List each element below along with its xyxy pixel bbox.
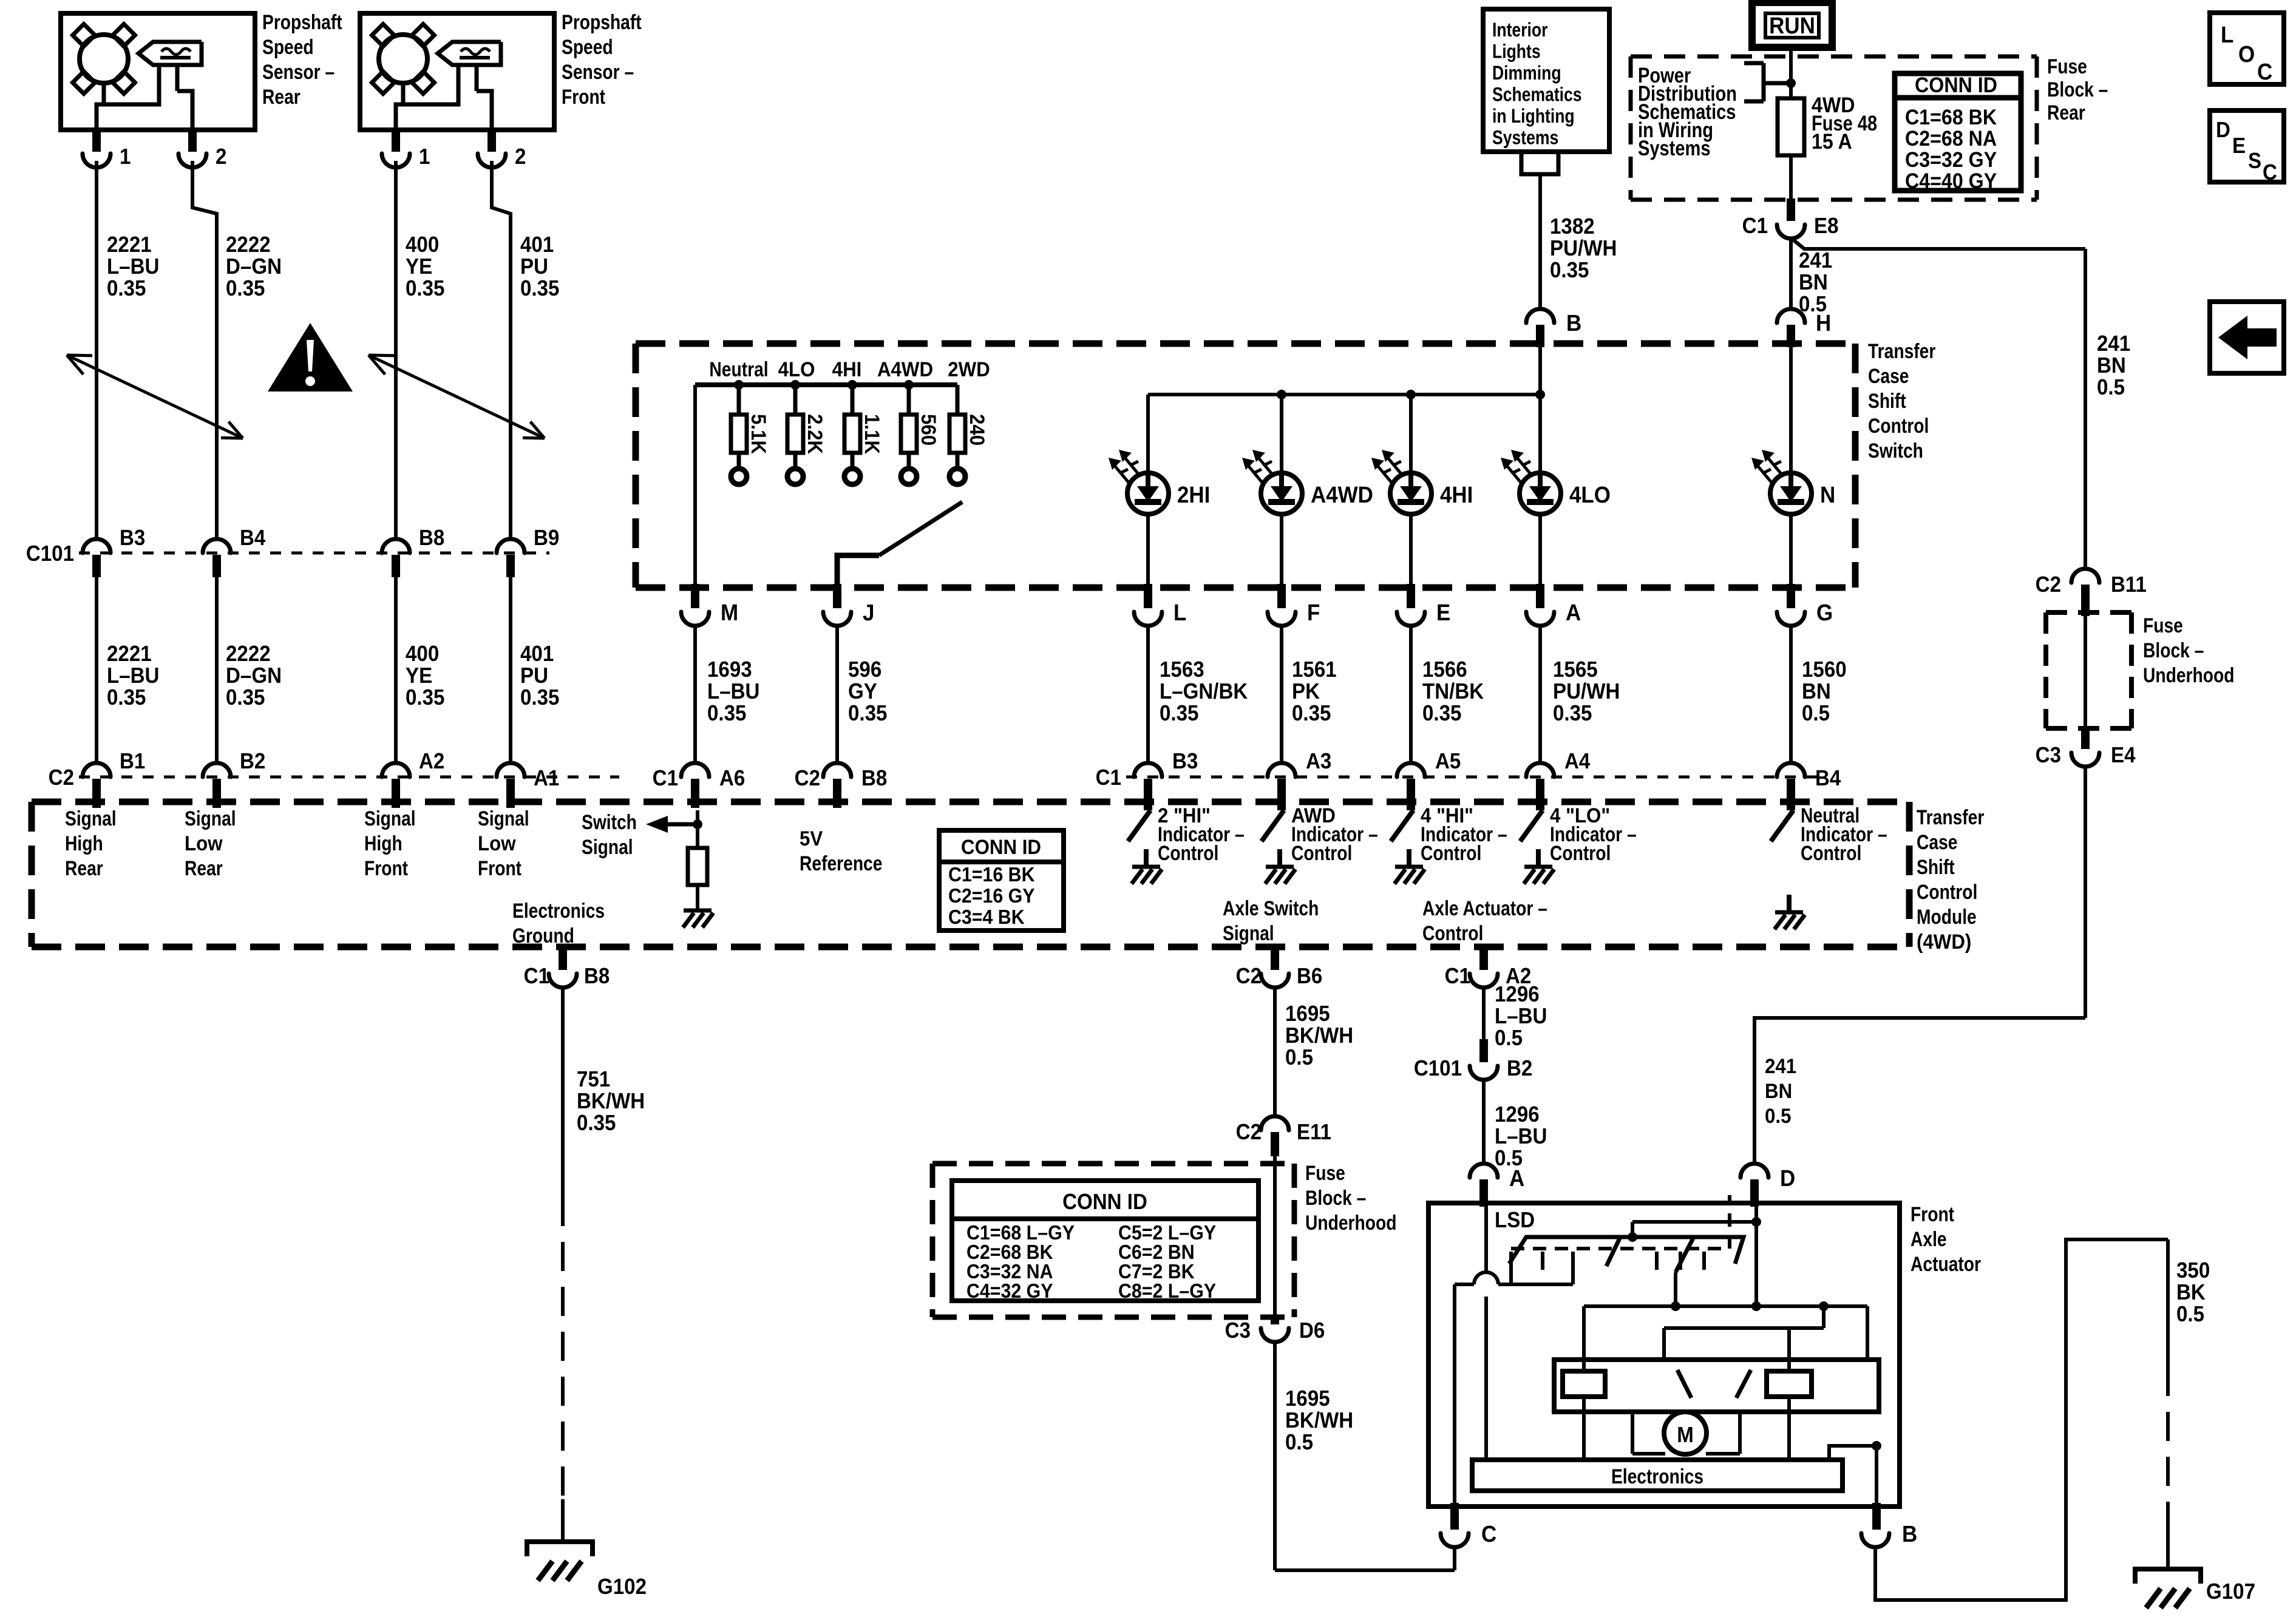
svg-text:A4: A4 [1564, 750, 1591, 774]
svg-text:751: 751 [577, 1068, 610, 1092]
svg-text:L–GN/BK: L–GN/BK [1160, 680, 1248, 704]
svg-text:1695: 1695 [1285, 1002, 1330, 1026]
svg-text:Speed: Speed [562, 36, 613, 59]
svg-text:Control: Control [1158, 842, 1218, 865]
svg-text:B4: B4 [240, 526, 266, 551]
svg-text:Sensor –: Sensor – [262, 61, 335, 84]
svg-text:Rear: Rear [2047, 101, 2085, 124]
svg-text:High: High [364, 832, 402, 855]
svg-text:BK/WH: BK/WH [1285, 1024, 1353, 1048]
svg-text:C: C [1481, 1521, 1496, 1547]
svg-text:B3: B3 [1172, 750, 1198, 774]
svg-text:Signal: Signal [185, 807, 236, 830]
svg-text:0.35: 0.35 [107, 686, 146, 710]
svg-text:Lights: Lights [1492, 41, 1541, 63]
svg-text:C2: C2 [1236, 964, 1262, 989]
svg-text:Interior: Interior [1492, 19, 1547, 41]
svg-text:Underhood: Underhood [2143, 664, 2234, 687]
svg-text:Control: Control [1550, 842, 1611, 865]
svg-text:C2: C2 [49, 766, 74, 790]
svg-text:C8=2 L–GY: C8=2 L–GY [1118, 1280, 1216, 1302]
svg-text:0.5: 0.5 [1285, 1046, 1313, 1070]
svg-text:C1: C1 [1742, 214, 1768, 239]
svg-text:Module: Module [1917, 906, 1977, 929]
svg-text:L–BU: L–BU [707, 680, 759, 704]
svg-text:Front: Front [562, 86, 606, 109]
svg-text:B1: B1 [120, 750, 145, 774]
svg-text:Shift: Shift [1917, 856, 1955, 879]
svg-text:C2: C2 [1236, 1120, 1262, 1145]
svg-text:BK/WH: BK/WH [1285, 1409, 1353, 1433]
svg-text:0.35: 0.35 [1553, 702, 1592, 726]
svg-text:Switch: Switch [1868, 439, 1923, 463]
svg-text:(4WD): (4WD) [1917, 930, 1971, 954]
svg-text:2222: 2222 [226, 642, 271, 666]
svg-text:560: 560 [917, 414, 941, 446]
svg-text:L–BU: L–BU [107, 255, 159, 279]
svg-text:B11: B11 [2111, 573, 2147, 597]
svg-text:G102: G102 [597, 1575, 647, 1599]
svg-text:E: E [2232, 134, 2246, 158]
svg-text:2: 2 [216, 145, 226, 169]
svg-text:PU/WH: PU/WH [1553, 680, 1620, 704]
svg-text:4LO: 4LO [778, 358, 815, 381]
svg-text:241: 241 [1799, 249, 1832, 273]
svg-text:L–BU: L–BU [1495, 1125, 1547, 1149]
svg-text:Schematics: Schematics [1492, 84, 1582, 106]
svg-text:Actuator: Actuator [1911, 1253, 1981, 1276]
svg-text:S: S [2248, 149, 2261, 174]
svg-text:PU: PU [520, 255, 548, 279]
svg-text:YE: YE [406, 255, 432, 279]
svg-text:2: 2 [515, 145, 526, 169]
svg-text:A4WD: A4WD [877, 358, 933, 381]
svg-text:L: L [1173, 600, 1186, 626]
svg-text:E: E [1436, 600, 1450, 626]
svg-text:Underhood: Underhood [1305, 1212, 1396, 1235]
svg-text:0.35: 0.35 [406, 277, 444, 301]
svg-text:Signal: Signal [582, 836, 633, 859]
svg-text:596: 596 [848, 658, 881, 682]
svg-text:Control: Control [1421, 842, 1481, 865]
svg-text:Control: Control [1291, 842, 1352, 865]
svg-text:CONN ID: CONN ID [1062, 1190, 1147, 1215]
svg-text:D–GN: D–GN [226, 664, 282, 688]
svg-text:C4=32 GY: C4=32 GY [966, 1280, 1053, 1302]
svg-text:0.35: 0.35 [406, 686, 444, 710]
svg-text:5V: 5V [800, 827, 823, 850]
svg-text:E4: E4 [2111, 744, 2136, 768]
svg-text:A3: A3 [1306, 750, 1331, 774]
svg-text:B: B [1566, 310, 1581, 336]
svg-text:C3: C3 [2036, 744, 2061, 768]
svg-text:Signal: Signal [1223, 922, 1274, 945]
svg-text:Transfer: Transfer [1917, 806, 1984, 829]
svg-text:Switch: Switch [582, 811, 637, 834]
svg-text:BN: BN [1799, 271, 1828, 295]
svg-text:0.35: 0.35 [848, 702, 887, 726]
svg-text:401: 401 [520, 642, 554, 666]
svg-text:0.35: 0.35 [1422, 702, 1461, 726]
svg-text:0.5: 0.5 [1765, 1104, 1791, 1128]
svg-text:M: M [1677, 1423, 1694, 1448]
svg-text:A5: A5 [1435, 750, 1461, 774]
svg-text:Propshaft: Propshaft [262, 11, 342, 34]
svg-text:Reference: Reference [800, 852, 882, 875]
svg-text:BN: BN [2097, 354, 2126, 378]
svg-text:B: B [1902, 1521, 1917, 1547]
svg-text:Sensor –: Sensor – [562, 61, 634, 84]
svg-text:5.1K: 5.1K [747, 414, 771, 454]
svg-text:350: 350 [2176, 1259, 2210, 1283]
svg-text:J: J [863, 600, 874, 626]
svg-text:Dimming: Dimming [1492, 63, 1561, 84]
svg-text:C1: C1 [1445, 964, 1470, 989]
svg-text:0.5: 0.5 [1285, 1431, 1313, 1455]
svg-text:C1: C1 [653, 767, 678, 791]
svg-text:LSD: LSD [1495, 1209, 1535, 1233]
svg-text:Rear: Rear [185, 857, 223, 880]
svg-text:1.1K: 1.1K [861, 414, 885, 454]
svg-text:Ground: Ground [512, 924, 574, 947]
svg-text:0.35: 0.35 [520, 277, 559, 301]
svg-text:2221: 2221 [107, 233, 152, 257]
svg-text:BK/WH: BK/WH [577, 1090, 645, 1114]
svg-text:Block –: Block – [2047, 78, 2108, 101]
svg-text:CONN ID: CONN ID [1915, 74, 1997, 98]
svg-text:B2: B2 [1507, 1057, 1532, 1081]
svg-text:B9: B9 [534, 526, 559, 551]
svg-text:0.5: 0.5 [1802, 702, 1830, 726]
svg-text:Fuse: Fuse [1305, 1162, 1345, 1185]
svg-text:PU: PU [520, 664, 548, 688]
svg-text:0.35: 0.35 [226, 277, 265, 301]
svg-text:Signal: Signal [65, 807, 117, 830]
svg-text:0.5: 0.5 [1495, 1026, 1523, 1051]
svg-text:O: O [2238, 41, 2255, 67]
svg-text:C2: C2 [2036, 573, 2061, 597]
svg-text:1382: 1382 [1550, 215, 1595, 239]
svg-text:240: 240 [966, 414, 990, 446]
svg-text:Signal: Signal [364, 807, 416, 830]
svg-text:0.35: 0.35 [1292, 702, 1331, 726]
svg-text:Speed: Speed [262, 36, 314, 59]
svg-text:Control: Control [1422, 922, 1483, 945]
svg-text:Front: Front [478, 857, 522, 880]
svg-text:C3=4 BK: C3=4 BK [948, 906, 1025, 928]
svg-text:Front: Front [364, 857, 409, 880]
svg-text:D: D [2216, 118, 2230, 143]
svg-text:C4=40 GY: C4=40 GY [1905, 170, 1997, 194]
svg-text:Case: Case [1917, 831, 1957, 854]
svg-text:1693: 1693 [707, 658, 752, 682]
svg-text:0.35: 0.35 [577, 1111, 616, 1136]
svg-text:L: L [2221, 22, 2233, 48]
svg-text:Control: Control [1917, 881, 1977, 904]
svg-text:Neutral: Neutral [709, 358, 768, 381]
svg-text:0.35: 0.35 [1160, 702, 1198, 726]
svg-text:G: G [1816, 600, 1833, 626]
svg-text:D6: D6 [1299, 1319, 1325, 1343]
svg-text:C1: C1 [1096, 766, 1121, 790]
svg-text:Front: Front [1911, 1203, 1955, 1226]
svg-text:Shift: Shift [1868, 390, 1906, 413]
svg-text:YE: YE [406, 664, 432, 688]
svg-text:B8: B8 [419, 526, 444, 551]
svg-text:GY: GY [848, 680, 877, 704]
svg-text:Fuse: Fuse [2047, 55, 2087, 78]
svg-text:1695: 1695 [1285, 1387, 1330, 1411]
svg-text:C3=32 GY: C3=32 GY [1905, 149, 1997, 172]
svg-text:N: N [1820, 482, 1835, 508]
svg-text:C2=68 NA: C2=68 NA [1905, 127, 1997, 151]
svg-text:Systems: Systems [1638, 136, 1710, 160]
svg-text:1: 1 [419, 145, 430, 169]
svg-text:BK: BK [2176, 1281, 2206, 1305]
svg-text:L–BU: L–BU [1495, 1005, 1547, 1029]
svg-text:B8: B8 [861, 767, 887, 791]
svg-text:0.35: 0.35 [1550, 259, 1589, 283]
svg-text:M: M [721, 600, 738, 626]
svg-text:Electronics: Electronics [512, 900, 605, 923]
svg-text:C101: C101 [26, 542, 74, 566]
svg-text:Case: Case [1868, 365, 1909, 388]
svg-text:B4: B4 [1815, 767, 1841, 791]
svg-text:High: High [65, 832, 103, 855]
svg-text:401: 401 [520, 233, 554, 257]
svg-text:1296: 1296 [1495, 983, 1540, 1007]
svg-text:A: A [1509, 1165, 1524, 1192]
svg-text:Low: Low [185, 832, 223, 855]
svg-text:Propshaft: Propshaft [562, 11, 642, 34]
svg-text:BN: BN [1765, 1079, 1792, 1103]
svg-text:B3: B3 [120, 526, 145, 551]
svg-text:BN: BN [1802, 680, 1831, 704]
svg-text:TN/BK: TN/BK [1422, 680, 1484, 704]
svg-text:B6: B6 [1297, 964, 1322, 989]
svg-text:F: F [1307, 600, 1320, 626]
svg-text:E11: E11 [1297, 1120, 1331, 1145]
svg-text:0.35: 0.35 [707, 702, 746, 726]
svg-text:C1: C1 [524, 964, 549, 989]
svg-text:Axle Switch: Axle Switch [1223, 897, 1319, 920]
svg-text:A: A [1566, 600, 1581, 626]
svg-text:L–BU: L–BU [107, 664, 159, 688]
svg-text:D–GN: D–GN [226, 255, 282, 279]
svg-text:C1=68 BK: C1=68 BK [1905, 106, 1997, 130]
svg-text:B8: B8 [584, 964, 610, 989]
svg-text:G107: G107 [2206, 1580, 2255, 1604]
svg-text:Low: Low [478, 832, 516, 855]
svg-text:Fuse: Fuse [2143, 614, 2183, 637]
svg-text:Signal: Signal [478, 807, 529, 830]
svg-text:241: 241 [2097, 332, 2130, 356]
svg-text:2222: 2222 [226, 233, 271, 257]
svg-text:400: 400 [406, 642, 439, 666]
svg-text:in Lighting: in Lighting [1492, 106, 1575, 127]
svg-text:C3: C3 [1225, 1319, 1251, 1343]
svg-text:0.35: 0.35 [226, 686, 265, 710]
svg-text:2221: 2221 [107, 642, 152, 666]
svg-text:PU/WH: PU/WH [1550, 237, 1617, 261]
svg-text:1563: 1563 [1160, 658, 1204, 682]
svg-text:15 A: 15 A [1812, 131, 1852, 154]
svg-text:400: 400 [406, 233, 439, 257]
svg-text:A4WD: A4WD [1311, 482, 1373, 508]
svg-text:RUN: RUN [1769, 13, 1815, 39]
svg-text:A2: A2 [419, 750, 444, 774]
svg-text:PK: PK [1292, 680, 1320, 704]
svg-text:Rear: Rear [262, 86, 301, 109]
svg-text:2.2K: 2.2K [804, 414, 827, 454]
svg-text:C: C [2257, 59, 2272, 85]
svg-text:A6: A6 [719, 767, 745, 791]
svg-text:1565: 1565 [1553, 658, 1598, 682]
svg-text:Systems: Systems [1492, 127, 1558, 149]
svg-text:1: 1 [120, 145, 131, 169]
svg-text:Block –: Block – [2143, 639, 2204, 662]
svg-text:4HI: 4HI [832, 358, 862, 381]
svg-text:0.35: 0.35 [520, 686, 559, 710]
svg-text:4LO: 4LO [1569, 482, 1611, 508]
svg-text:C101: C101 [1414, 1057, 1462, 1081]
svg-text:Transfer: Transfer [1868, 340, 1935, 363]
svg-text:C2: C2 [795, 767, 820, 791]
svg-text:C2=16 GY: C2=16 GY [948, 884, 1035, 907]
svg-text:1566: 1566 [1422, 658, 1467, 682]
svg-text:241: 241 [1765, 1054, 1796, 1078]
svg-text:Axle Actuator –: Axle Actuator – [1422, 897, 1547, 920]
svg-text:H: H [1816, 310, 1831, 336]
svg-text:2WD: 2WD [948, 358, 990, 381]
svg-text:C1=16 BK: C1=16 BK [948, 863, 1035, 886]
svg-text:CONN ID: CONN ID [961, 835, 1041, 859]
svg-text:2HI: 2HI [1177, 482, 1210, 508]
svg-text:D: D [1780, 1165, 1795, 1192]
svg-text:C: C [2263, 161, 2277, 185]
svg-text:A1: A1 [534, 767, 559, 791]
svg-text:Block –: Block – [1305, 1187, 1366, 1210]
svg-text:Electronics: Electronics [1611, 1465, 1703, 1488]
svg-text:E8: E8 [1814, 214, 1838, 239]
svg-text:Control: Control [1801, 842, 1861, 865]
svg-text:1561: 1561 [1292, 658, 1337, 682]
svg-text:0.35: 0.35 [107, 277, 146, 301]
svg-text:1560: 1560 [1802, 658, 1847, 682]
svg-text:1296: 1296 [1495, 1103, 1540, 1127]
svg-text:0.5: 0.5 [2097, 376, 2125, 400]
svg-text:Axle: Axle [1911, 1228, 1947, 1251]
svg-text:4HI: 4HI [1440, 482, 1473, 508]
svg-text:Rear: Rear [65, 857, 103, 880]
svg-text:0.5: 0.5 [2176, 1303, 2204, 1327]
svg-text:Control: Control [1868, 415, 1929, 438]
svg-text:B2: B2 [240, 750, 265, 774]
